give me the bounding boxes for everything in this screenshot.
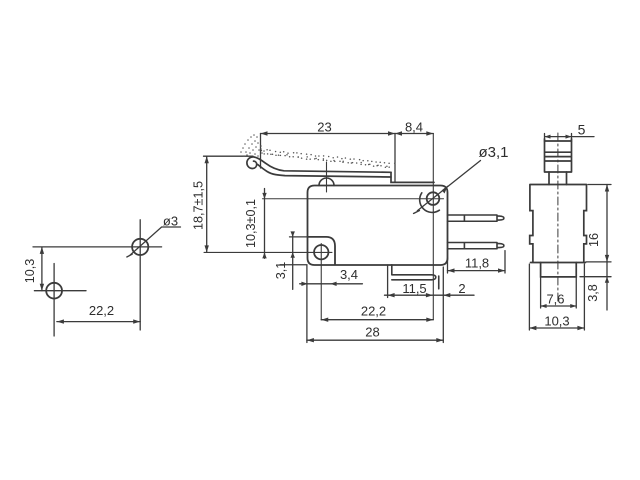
lever rolled end cross-section xyxy=(545,139,572,172)
common terminal bracket xyxy=(392,265,436,280)
svg-text:10,3: 10,3 xyxy=(23,259,37,284)
svg-text:ø3: ø3 xyxy=(163,214,178,229)
svg-text:3,8: 3,8 xyxy=(586,284,600,302)
dimension 11,5 and 2 xyxy=(385,294,475,296)
arrows 3,8 xyxy=(605,277,609,283)
boss arc around hole P1 xyxy=(420,193,440,213)
svg-text:7,6: 7,6 xyxy=(546,292,564,307)
svg-text:11,8: 11,8 xyxy=(465,256,489,271)
dimension 10,3 (left view vertical) xyxy=(33,247,162,291)
mounting lug (bottom-left) xyxy=(308,237,336,265)
arrowheads xyxy=(40,131,610,342)
svg-text:22,2: 22,2 xyxy=(89,303,114,318)
svg-text:28: 28 xyxy=(365,325,379,340)
dimension 8,4 xyxy=(395,133,433,135)
dimension 16 / 3,8 extensions xyxy=(580,185,611,277)
arrows 10,3 right view xyxy=(529,326,536,330)
leader line dia3,1 xyxy=(414,161,481,214)
svg-text:16: 16 xyxy=(587,233,601,247)
arrows 23 xyxy=(261,131,268,135)
arrows 11,5 xyxy=(388,293,395,297)
terminal pin T2 xyxy=(448,243,504,249)
stipple dots (lever free position) xyxy=(240,134,395,168)
svg-text:8,4: 8,4 xyxy=(405,120,423,135)
dimension 22,2 (middle) xyxy=(321,319,433,321)
node H1 centerlines xyxy=(34,264,86,337)
common terminal tab xyxy=(438,276,440,289)
hole P1 horizontal centerline / 10,3 extension xyxy=(263,198,444,200)
svg-text:2: 2 xyxy=(458,281,465,296)
svg-text:3,4: 3,4 xyxy=(340,267,358,282)
hole P2 horizontal centerline / 18,7 bottom extension xyxy=(204,251,332,253)
svg-text:5: 5 xyxy=(578,122,586,138)
centerline (end view) xyxy=(557,133,559,303)
svg-text:3,1: 3,1 xyxy=(274,262,288,280)
arrows 22,2 middle xyxy=(321,318,328,322)
body right edge extension xyxy=(447,258,449,273)
svg-text:23: 23 xyxy=(317,120,331,135)
arrows 2 xyxy=(443,293,450,297)
switch body xyxy=(308,186,448,266)
arrows 5 xyxy=(545,135,551,139)
plunger stem xyxy=(549,172,567,185)
arrows 18,7 xyxy=(205,156,209,163)
bottom block xyxy=(541,263,577,277)
svg-text:10,3±0,1: 10,3±0,1 xyxy=(244,199,258,248)
arrows 22,2 left view xyxy=(57,319,64,323)
dimension 3,1 xyxy=(280,233,308,290)
svg-text:11,5: 11,5 xyxy=(402,281,426,296)
svg-text:ø3,1: ø3,1 xyxy=(478,144,508,161)
leader line dia3 xyxy=(127,227,181,257)
arrow dia3,1 leader xyxy=(442,185,448,193)
end view body outline xyxy=(530,185,587,263)
node H2 centerlines xyxy=(139,220,141,330)
hole P2 vertical centerline / 22,2 extension xyxy=(320,244,322,321)
plunger dome xyxy=(319,178,334,185)
dimension 16 xyxy=(606,185,608,262)
arrows 3,1 xyxy=(291,231,295,237)
dim 11,8 extension xyxy=(504,251,506,273)
dimension 23 xyxy=(261,133,396,135)
dimension 3,8 xyxy=(606,262,608,310)
svg-text:22,2: 22,2 xyxy=(361,304,386,319)
dim 11,5 left extension xyxy=(387,265,389,298)
dimension 22,2 (left view horizontal) xyxy=(57,321,140,323)
arrows 10,3 left view xyxy=(40,247,44,254)
hole P1 vertical centerline / 8,4 and 22,2 extension xyxy=(432,134,434,320)
dimension 7,6 xyxy=(541,278,577,308)
hole P1 (top-right body hole, dia 3,1) xyxy=(427,192,440,205)
lever (hinge lever arm, top outline with curl) xyxy=(247,157,391,172)
dim 28 right extension xyxy=(442,267,444,343)
svg-text:18,7±1,5: 18,7±1,5 xyxy=(192,181,206,230)
arrows 16 xyxy=(605,185,609,192)
dim 23 extension left xyxy=(260,134,262,169)
dimension 18,7±1,5 xyxy=(204,156,254,252)
plunger centerline xyxy=(326,162,328,192)
dim 23/8,4 shared extension xyxy=(394,134,396,183)
arrows 11,8 xyxy=(448,268,455,272)
hole H2 (upper-right mounting hole) xyxy=(132,239,148,255)
dimension 5 xyxy=(545,134,595,143)
lever bottom edge xyxy=(258,165,391,178)
body left edge extension (28 left) xyxy=(306,265,308,343)
arrows 28 xyxy=(307,338,314,342)
hole P2 (bottom-left body hole) xyxy=(314,245,328,259)
arrows 8,4 xyxy=(395,131,402,135)
dimension 10,3 (right view) xyxy=(529,264,584,330)
svg-text:10,3: 10,3 xyxy=(544,314,569,329)
dimension 3,4 xyxy=(300,283,363,285)
dimension 28 xyxy=(307,339,443,341)
lever tip step xyxy=(391,172,434,182)
hole H1 (lower-left mounting hole) xyxy=(46,283,62,299)
arrows 7,6 xyxy=(541,304,547,308)
dimension 11,8 xyxy=(448,270,506,272)
arrows 3,4 xyxy=(301,282,307,286)
dimension 10,3±0,1 xyxy=(264,189,266,259)
terminal pin T1 xyxy=(448,215,504,221)
arrows 10,3±0,1 xyxy=(262,193,266,199)
